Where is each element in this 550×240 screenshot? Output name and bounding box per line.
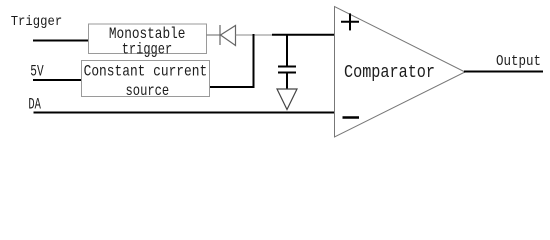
svg-text:source: source	[126, 82, 170, 100]
comparator - input symbol	[343, 116, 360, 119]
comparator + input symbol	[341, 13, 359, 30]
block U2 Constant current source box	[82, 61, 210, 97]
wire DA input to comparator - input	[34, 112, 336, 114]
capacitor C1 top plate	[278, 66, 296, 68]
wire Trigger input to monostable box	[33, 40, 89, 42]
ground symbol	[277, 89, 297, 110]
svg-text:5V: 5V	[30, 63, 44, 81]
wire constant current source output to junction	[210, 86, 255, 88]
diode D1 cathode bar	[219, 25, 221, 45]
block U1 Monostable trigger box	[89, 24, 207, 54]
op-amp U3 comparator triangle	[335, 7, 466, 138]
svg-text:Output: Output	[496, 53, 541, 70]
wire junction: vertical branch from node A down to current source output	[253, 34, 255, 88]
wire 5V input to current source box	[33, 79, 82, 81]
capacitor C1 bottom lead	[286, 73, 288, 89]
svg-text:DA: DA	[28, 96, 41, 114]
capacitor C1 bottom plate	[278, 72, 296, 74]
svg-text:Constant current: Constant current	[84, 62, 208, 80]
wire diode D1 to node A (gray segment)	[236, 34, 273, 36]
svg-text:Trigger: Trigger	[11, 14, 63, 30]
diode D1 triangle	[221, 26, 236, 46]
wire comparator output	[464, 71, 543, 73]
wire monostable box output to diode D1	[207, 34, 220, 36]
svg-text:trigger: trigger	[122, 40, 173, 58]
wire node A to comparator + input (black segment)	[272, 34, 335, 36]
capacitor C1 top lead	[286, 34, 288, 66]
svg-text:Comparator: Comparator	[344, 63, 435, 83]
